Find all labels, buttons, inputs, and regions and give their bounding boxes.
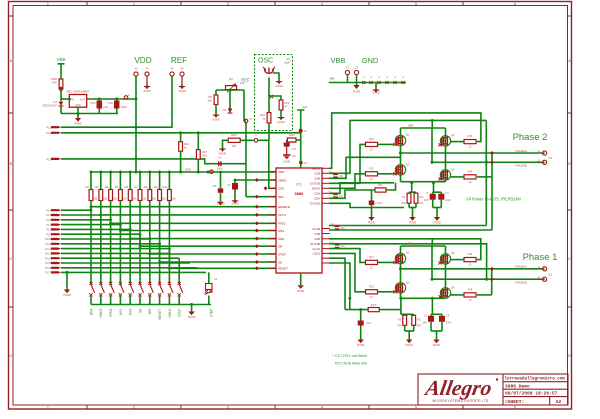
svg-text:XSLP: XSLP bbox=[178, 308, 182, 317]
svg-text:10n: 10n bbox=[339, 175, 344, 178]
svg-text:24C: 24C bbox=[52, 81, 57, 85]
svg-text:VBB: VBB bbox=[408, 124, 413, 128]
svg-text:GL1B: GL1B bbox=[312, 227, 320, 231]
svg-text:REF: REF bbox=[171, 56, 187, 65]
svg-text:IC1: IC1 bbox=[296, 183, 301, 187]
svg-text:1: 1 bbox=[47, 406, 49, 410]
svg-text:PL16: PL16 bbox=[45, 267, 51, 270]
svg-text:OSC: OSC bbox=[258, 58, 273, 65]
svg-text:R14: R14 bbox=[468, 170, 473, 174]
svg-text:PGND: PGND bbox=[409, 221, 417, 225]
svg-text:C10a: C10a bbox=[290, 141, 296, 144]
svg-text:PFD2: PFD2 bbox=[278, 222, 286, 226]
svg-text:R6: R6 bbox=[125, 185, 129, 189]
svg-text:R9: R9 bbox=[154, 185, 158, 189]
svg-text:RESET: RESET bbox=[158, 309, 162, 320]
svg-text:G: G bbox=[370, 77, 372, 79]
svg-text:AGND: AGND bbox=[212, 118, 220, 122]
svg-text:3986: 3986 bbox=[295, 191, 305, 196]
svg-text:U24: U24 bbox=[302, 105, 308, 109]
svg-text:PL13: PL13 bbox=[45, 253, 51, 256]
svg-text:C1: C1 bbox=[227, 183, 231, 187]
svg-text:Q1: Q1 bbox=[406, 133, 410, 137]
svg-text:PL5: PL5 bbox=[47, 214, 52, 217]
svg-text:PL11: PL11 bbox=[45, 243, 51, 246]
svg-text:Allegro: Allegro bbox=[422, 376, 494, 400]
svg-text:OUT: OUT bbox=[80, 98, 86, 101]
svg-text:Q2: Q2 bbox=[451, 133, 455, 137]
svg-text:100n: 100n bbox=[121, 105, 128, 109]
svg-text:6: 6 bbox=[514, 2, 516, 6]
svg-text:PL8: PL8 bbox=[47, 229, 52, 232]
svg-text:R0/: R0/ bbox=[417, 324, 421, 327]
svg-text:5: 5 bbox=[415, 406, 417, 410]
svg-text:R14: R14 bbox=[468, 288, 473, 292]
svg-text:R0/: R0/ bbox=[420, 202, 424, 205]
svg-text:C-L16: C-L16 bbox=[375, 201, 383, 205]
svg-text:Q1: Q1 bbox=[406, 251, 410, 255]
svg-text:X2: X2 bbox=[549, 156, 553, 160]
svg-text:GND: GND bbox=[75, 104, 81, 107]
svg-text:PL3: PL3 bbox=[46, 157, 51, 161]
svg-text:R24*: R24* bbox=[371, 303, 377, 307]
svg-text:R0/: R0/ bbox=[397, 324, 401, 327]
svg-text:PHASE1A: PHASE1A bbox=[515, 265, 527, 269]
svg-text:PGND: PGND bbox=[63, 293, 71, 297]
svg-text:R0/: R0/ bbox=[402, 202, 406, 205]
svg-text:AGND: AGND bbox=[283, 161, 290, 164]
svg-text:R32a: R32a bbox=[289, 134, 296, 137]
svg-text:C7: C7 bbox=[249, 117, 253, 121]
svg-text:Phase 2: Phase 2 bbox=[513, 132, 548, 143]
svg-text:PL1: PL1 bbox=[46, 126, 51, 130]
svg-text:GND2: GND2 bbox=[99, 308, 103, 317]
svg-text:HOLD: HOLD bbox=[168, 308, 172, 318]
svg-text:C1?: C1? bbox=[292, 148, 297, 151]
svg-text:D2: D2 bbox=[223, 108, 227, 112]
svg-text:R13: R13 bbox=[468, 134, 473, 138]
svg-text:ENABLE: ENABLE bbox=[278, 205, 290, 209]
svg-text:S1: S1 bbox=[214, 277, 218, 281]
svg-text:R11: R11 bbox=[369, 137, 374, 141]
svg-text:3: 3 bbox=[227, 406, 229, 410]
svg-text:PL2: PL2 bbox=[46, 131, 51, 135]
svg-text:2: 2 bbox=[133, 406, 135, 410]
svg-text:09/07/2008 18:26:57: 09/07/2008 18:26:57 bbox=[505, 391, 558, 397]
svg-text:MS2: MS2 bbox=[129, 308, 133, 315]
svg-text:R10: R10 bbox=[162, 185, 167, 189]
svg-text:AGND: AGND bbox=[275, 84, 283, 88]
svg-text:MICROSYSTEMS EUROPE LTD: MICROSYSTEMS EUROPE LTD bbox=[432, 399, 488, 403]
svg-text:C16: C16 bbox=[108, 101, 114, 105]
svg-text:VBB: VBB bbox=[56, 57, 65, 62]
svg-text:PHASE2A: PHASE2A bbox=[515, 149, 527, 153]
svg-text:PL9: PL9 bbox=[47, 233, 52, 236]
svg-text:MS1: MS1 bbox=[119, 308, 123, 315]
svg-text:PFD2: PFD2 bbox=[109, 308, 113, 317]
svg-text:AGND: AGND bbox=[219, 152, 227, 156]
svg-text:VREG: VREG bbox=[278, 178, 287, 182]
svg-text:Q2: Q2 bbox=[451, 251, 455, 255]
svg-text:G: G bbox=[394, 77, 396, 79]
svg-text:AGND: AGND bbox=[143, 89, 151, 93]
svg-text:R13: R13 bbox=[468, 252, 473, 256]
svg-text:10k: 10k bbox=[232, 144, 237, 148]
svg-text:4: 4 bbox=[321, 406, 323, 410]
svg-text:PL10: PL10 bbox=[45, 238, 51, 241]
svg-text:PGND: PGND bbox=[405, 343, 413, 347]
svg-text:C10: C10 bbox=[90, 101, 96, 105]
svg-text:X2: X2 bbox=[549, 273, 553, 277]
svg-text:R5: R5 bbox=[115, 185, 119, 189]
svg-text:OUT2A: OUT2A bbox=[310, 202, 320, 206]
svg-text:R27,R28 Wire link: R27,R28 Wire link bbox=[335, 361, 367, 366]
svg-text:R1/: R1/ bbox=[417, 318, 421, 321]
svg-text:VDD: VDD bbox=[185, 167, 191, 171]
svg-text:1R0: 1R0 bbox=[422, 321, 427, 324]
svg-text:DIR: DIR bbox=[148, 308, 152, 314]
svg-text:SR: SR bbox=[138, 308, 142, 313]
svg-text:AGND: AGND bbox=[372, 90, 380, 94]
svg-text:R12: R12 bbox=[369, 166, 374, 170]
svg-text:100n: 100n bbox=[445, 199, 451, 202]
svg-text:3986 Demo: 3986 Demo bbox=[505, 383, 530, 389]
svg-text:>SHEET:: >SHEET: bbox=[505, 399, 524, 405]
svg-text:22k: 22k bbox=[240, 81, 245, 85]
svg-text:100n: 100n bbox=[217, 167, 223, 171]
svg-text:Q3: Q3 bbox=[406, 280, 410, 284]
svg-text:R17: R17 bbox=[378, 183, 383, 187]
svg-text:2u2: 2u2 bbox=[103, 105, 108, 109]
svg-text:2: 2 bbox=[133, 2, 135, 6]
svg-text:PFTH: PFTH bbox=[278, 213, 286, 217]
svg-text:PGND: PGND bbox=[297, 289, 305, 293]
svg-text:10pF: 10pF bbox=[284, 61, 290, 65]
svg-text:MS2: MS2 bbox=[278, 237, 285, 241]
svg-text:VBB: VBB bbox=[408, 242, 413, 246]
svg-text:STEP: STEP bbox=[278, 252, 286, 256]
svg-text:MS1: MS1 bbox=[278, 229, 285, 233]
svg-text:PL12: PL12 bbox=[45, 248, 51, 251]
svg-text:R2: R2 bbox=[85, 185, 89, 189]
svg-text:VBB: VBB bbox=[329, 77, 334, 81]
svg-text:All Power N-MOS: IRLR024N: All Power N-MOS: IRLR024N bbox=[466, 197, 521, 202]
svg-text:R4: R4 bbox=[287, 57, 291, 61]
svg-text:Q3: Q3 bbox=[406, 162, 410, 166]
svg-text:RESET: RESET bbox=[278, 267, 288, 271]
svg-text:G: G bbox=[402, 77, 404, 79]
svg-text:PHASE2B: PHASE2B bbox=[515, 164, 527, 168]
svg-text:S1B: S1B bbox=[314, 237, 320, 241]
svg-text:R23: R23 bbox=[285, 101, 290, 105]
svg-text:1C?: 1C? bbox=[292, 155, 297, 158]
svg-text:PL4: PL4 bbox=[47, 209, 52, 212]
svg-text:R9: R9 bbox=[229, 77, 233, 81]
svg-text:R4: R4 bbox=[105, 185, 109, 189]
svg-text:C2A: C2A bbox=[314, 192, 320, 196]
svg-text:G: G bbox=[363, 77, 365, 79]
svg-text:5: 5 bbox=[415, 2, 417, 6]
svg-text:OUT2B: OUT2B bbox=[310, 182, 320, 186]
svg-text:C2B: C2B bbox=[328, 171, 333, 174]
svg-text:Phase 1: Phase 1 bbox=[523, 252, 558, 263]
svg-text:R3: R3 bbox=[95, 185, 99, 189]
svg-text:OUT1B: OUT1B bbox=[310, 242, 320, 246]
svg-text:GND: GND bbox=[362, 56, 378, 65]
svg-text:STEP: STEP bbox=[210, 308, 214, 317]
svg-text:10n: 10n bbox=[339, 195, 344, 198]
svg-text:C1B: C1B bbox=[329, 223, 334, 226]
svg-text:R12: R12 bbox=[369, 284, 374, 288]
svg-text:IN: IN bbox=[71, 98, 74, 101]
svg-text:A2: A2 bbox=[556, 399, 562, 405]
svg-text:G: G bbox=[378, 77, 380, 79]
svg-text:AGND: AGND bbox=[178, 89, 186, 93]
svg-text:DN4: DN4 bbox=[89, 308, 93, 315]
svg-text:A: A bbox=[255, 134, 257, 138]
svg-text:OSC: OSC bbox=[278, 187, 285, 191]
svg-text:DN1: DN1 bbox=[231, 133, 237, 137]
svg-text:4: 4 bbox=[321, 2, 323, 6]
svg-text:PGND: PGND bbox=[368, 221, 376, 225]
svg-text:3: 3 bbox=[227, 2, 229, 6]
svg-text:GH2B: GH2B bbox=[312, 167, 320, 171]
svg-text:1: 1 bbox=[47, 2, 49, 6]
svg-text:VBB: VBB bbox=[331, 56, 346, 65]
svg-text:G: G bbox=[386, 77, 388, 79]
svg-text:6: 6 bbox=[514, 406, 516, 410]
svg-text:2k0: 2k0 bbox=[207, 99, 212, 103]
svg-text:BZG04G27: BZG04G27 bbox=[43, 104, 58, 108]
svg-text:C2: C2 bbox=[218, 156, 222, 160]
svg-text:lorrews@allegromicro.com: lorrews@allegromicro.com bbox=[505, 377, 566, 382]
svg-text:PL17: PL17 bbox=[45, 272, 51, 275]
svg-text:C1B: C1B bbox=[314, 232, 320, 236]
svg-text:REC TAPS 6A80T: REC TAPS 6A80T bbox=[67, 90, 90, 94]
svg-text:R1/: R1/ bbox=[420, 196, 424, 199]
svg-text:AGND: AGND bbox=[277, 120, 285, 124]
svg-text:R8: R8 bbox=[144, 185, 148, 189]
svg-text:100n: 100n bbox=[446, 321, 452, 324]
svg-text:S2A: S2A bbox=[314, 197, 320, 201]
svg-text:Q4: Q4 bbox=[451, 286, 455, 290]
svg-text:A: A bbox=[128, 93, 130, 97]
svg-text:PGND: PGND bbox=[74, 122, 82, 126]
svg-text:22k: 22k bbox=[202, 154, 207, 158]
svg-text:AGND: AGND bbox=[232, 202, 240, 206]
svg-text:1R0: 1R0 bbox=[424, 199, 429, 202]
svg-text:GH2A: GH2A bbox=[312, 187, 320, 191]
svg-text:Q4: Q4 bbox=[451, 168, 455, 172]
svg-text:PGND: PGND bbox=[188, 315, 196, 319]
svg-text:PGND: PGND bbox=[217, 202, 225, 206]
svg-text:10n: 10n bbox=[341, 227, 346, 230]
svg-text:REF: REF bbox=[278, 195, 284, 199]
svg-text:PGND: PGND bbox=[353, 89, 361, 93]
svg-text:10n: 10n bbox=[341, 245, 346, 248]
svg-text:LSS1: LSS1 bbox=[313, 252, 321, 256]
svg-text:PL7: PL7 bbox=[47, 224, 52, 227]
svg-text:PHASE1B: PHASE1B bbox=[515, 281, 527, 285]
svg-text:GL1A: GL1A bbox=[312, 247, 320, 251]
svg-text:PGND: PGND bbox=[433, 343, 441, 347]
svg-text:PGND: PGND bbox=[357, 343, 365, 347]
svg-text:R7: R7 bbox=[134, 185, 138, 189]
svg-text:* C17,R24 not fitted: * C17,R24 not fitted bbox=[332, 353, 367, 358]
svg-text:VDD: VDD bbox=[278, 170, 285, 174]
svg-text:C17*: C17* bbox=[366, 321, 372, 325]
svg-text:R22: R22 bbox=[260, 113, 265, 117]
svg-text:C2B: C2B bbox=[314, 172, 320, 176]
svg-text:PL6: PL6 bbox=[47, 219, 52, 222]
svg-text:PL15: PL15 bbox=[45, 262, 51, 265]
svg-text:C5: C5 bbox=[213, 184, 217, 188]
svg-text:S2B: S2B bbox=[314, 177, 320, 181]
svg-text:PL14: PL14 bbox=[45, 257, 51, 260]
svg-text:VDD: VDD bbox=[134, 56, 151, 65]
svg-text:PGND: PGND bbox=[433, 221, 441, 225]
svg-text:1v?: 1v? bbox=[304, 162, 309, 165]
svg-text:R11: R11 bbox=[369, 255, 374, 259]
